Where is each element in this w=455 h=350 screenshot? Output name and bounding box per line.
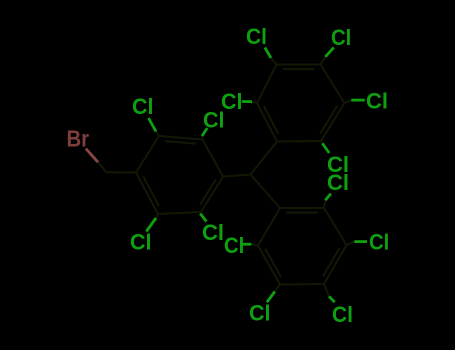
top ring Cl8 bond (345, 100, 352, 103)
top ring Cl5 bond (271, 58, 277, 65)
svg-text:Cl: Cl (327, 170, 349, 195)
top ring Cl6 bond (321, 57, 326, 65)
svg-text:Cl: Cl (369, 230, 389, 255)
wire: central carbon to bottom ring (251, 175, 281, 209)
svg-text:Cl: Cl (132, 94, 154, 119)
svg-text:Br: Br (67, 126, 90, 152)
bottom ring Cl14 bond (324, 284, 329, 296)
bond C-Br dark half (98, 162, 107, 172)
bottom-right ring (pentachlorophenyl) (258, 208, 347, 285)
left ring Cl1 bond (156, 132, 159, 137)
wire: left ring to central carbon (223, 175, 251, 177)
bottom ring Cl11 bond (251, 244, 258, 245)
top ring Cl7 bond (252, 102, 257, 103)
bottom ring Cl10 bond (324, 200, 325, 208)
top-right ring (pentachlorophenyl) (257, 65, 345, 142)
svg-text:Cl: Cl (202, 220, 224, 245)
svg-text:Cl: Cl (221, 89, 243, 114)
wire: CH2 to left ring (107, 171, 137, 173)
svg-text:Cl: Cl (130, 230, 152, 255)
svg-text:Cl: Cl (249, 301, 271, 326)
top ring Cl9 bond (321, 141, 322, 143)
svg-text:Cl: Cl (224, 233, 244, 258)
bond C-Br red half (86, 149, 98, 163)
svg-text:Cl: Cl (246, 24, 267, 49)
left ring Cl4 bond (199, 212, 202, 214)
left ring (tetrachlorophenyl) (136, 136, 223, 214)
left ring Cl2 bond (201, 136, 204, 140)
svg-text:Cl: Cl (366, 89, 388, 114)
bottom ring Cl13 bond (275, 285, 280, 292)
svg-text:Cl: Cl (332, 302, 353, 327)
bottom ring Cl12 bond (347, 242, 355, 245)
svg-text:Cl: Cl (331, 25, 351, 50)
left ring Cl3 bond (156, 214, 158, 218)
wire: central carbon to top ring (251, 142, 278, 175)
